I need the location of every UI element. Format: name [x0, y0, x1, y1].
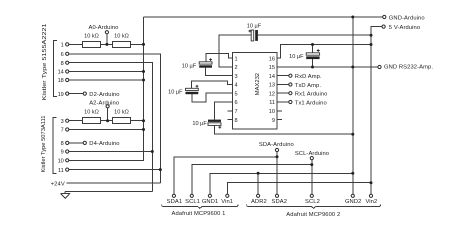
terminal A0-Arduino	[105, 31, 108, 34]
wire C2 bottom to pin5	[192, 93, 233, 102]
resistor R4 10 kOhm	[112, 118, 130, 124]
svg-text:SCL2: SCL2	[305, 199, 320, 205]
svg-text:SCL-Arduino: SCL-Arduino	[295, 151, 329, 157]
wire C3 leads	[312, 45, 314, 68]
terminal K1 pin18	[66, 78, 69, 81]
terminal SCL2	[310, 194, 313, 197]
svg-text:+24V: +24V	[51, 181, 65, 187]
wire pin14 to RxD	[277, 75, 289, 77]
terminal K1 pin14	[66, 70, 69, 73]
svg-text:15: 15	[269, 65, 275, 71]
wire Vin1 up and right	[227, 183, 371, 195]
wire pin7 stub	[227, 110, 232, 112]
node junction SCL	[310, 163, 313, 166]
terminal GND1	[208, 194, 211, 197]
terminal D2-Arduino	[83, 92, 86, 95]
svg-text:Adafruit MCP9600 1: Adafruit MCP9600 1	[171, 211, 225, 217]
svg-text:Kistler Type 5155A2221: Kistler Type 5155A2221	[42, 24, 48, 101]
terminal K1 pin8	[66, 61, 69, 64]
svg-text:11: 11	[58, 168, 64, 174]
node junction pin7 GND	[142, 128, 145, 131]
svg-text:4: 4	[235, 83, 238, 89]
node junction ADR2	[257, 172, 260, 175]
svg-text:Vin1: Vin1	[221, 199, 233, 205]
wire pin9 stub	[277, 119, 282, 121]
terminal Rx1 Arduino	[289, 92, 292, 95]
node junction pin18 GND	[142, 79, 145, 82]
terminal SDA1	[172, 194, 175, 197]
wire VCC line pin16 to 5V	[277, 45, 371, 59]
wire GND1 up and right	[210, 173, 353, 194]
wire pin15 GND RS232 line	[277, 66, 378, 68]
node junction pin14 GND	[142, 70, 145, 73]
wire K1 pin19 to D2	[69, 93, 83, 95]
terminal K2 pin8	[66, 141, 69, 144]
svg-text:A0-Arduino: A0-Arduino	[88, 25, 118, 31]
svg-text:D2-Arduino: D2-Arduino	[89, 92, 119, 98]
wire C4 bottom to GND bus	[215, 125, 353, 134]
wire ground line	[65, 190, 152, 192]
node junction Vin1 bus	[370, 181, 373, 184]
capacitor C4 10uF (pin6-GND)	[208, 120, 221, 129]
svg-text:10 µF: 10 µF	[182, 63, 197, 69]
ground symbol	[61, 191, 70, 198]
svg-text:8: 8	[61, 141, 64, 147]
svg-text:SDA-Arduino: SDA-Arduino	[259, 142, 294, 148]
capacitor C2 10uF (pin4-pin5)	[186, 85, 199, 94]
svg-text:16: 16	[269, 56, 275, 62]
node junction SDA	[276, 155, 279, 158]
node junction A0 divider	[105, 43, 108, 46]
op-amp box MAX232 U1	[233, 53, 277, 129]
svg-text:D4-Arduino: D4-Arduino	[89, 141, 119, 147]
svg-text:SDA2: SDA2	[272, 199, 288, 205]
wire A2 stem	[107, 108, 109, 121]
terminal ADR2	[257, 194, 260, 197]
node junction pin11 24V	[159, 168, 162, 171]
terminal Tx1 Arduino	[289, 100, 292, 103]
node junction A2 divider	[106, 119, 109, 122]
svg-text:10 kΩ: 10 kΩ	[84, 34, 99, 40]
svg-text:GND RS232-Amp.: GND RS232-Amp.	[384, 65, 433, 71]
wire K2 pin8 to D4	[69, 142, 83, 144]
node junction divider2 to GND	[142, 119, 145, 122]
terminal K2 pin7	[66, 128, 69, 131]
svg-text:19: 19	[58, 92, 64, 98]
svg-text:Vin2: Vin2	[365, 199, 377, 205]
node junction pin9 ground	[151, 150, 154, 153]
wire K1 pin1 to divider	[69, 43, 144, 45]
wire V+ line pin2 to 5V	[219, 35, 371, 67]
terminal GND-Arduino	[383, 15, 386, 18]
svg-text:GND2: GND2	[345, 199, 362, 205]
svg-text:10 kΩ: 10 kΩ	[114, 110, 129, 116]
svg-text:7: 7	[235, 109, 238, 115]
svg-text:8: 8	[235, 118, 238, 124]
capacitor C3 10uF (VCC-GND)	[306, 49, 319, 59]
svg-text:12: 12	[269, 91, 275, 97]
svg-text:2: 2	[235, 65, 238, 71]
svg-text:6: 6	[235, 100, 238, 106]
svg-text:TxD Amp.: TxD Amp.	[295, 83, 322, 89]
wire +24V line	[67, 182, 161, 184]
terminal K2 pin10	[66, 159, 69, 162]
svg-text:Adafruit MCP9600 2: Adafruit MCP9600 2	[286, 212, 340, 218]
resistor R2 10 kOhm	[112, 42, 130, 48]
wire SCL1 up and right	[192, 165, 312, 195]
svg-text:10 kΩ: 10 kΩ	[84, 110, 99, 116]
svg-text:10 kΩ: 10 kΩ	[114, 34, 129, 40]
terminal SDA-Arduino	[275, 148, 278, 151]
node junction divider to GND	[142, 43, 145, 46]
brace Adafruit MCP9600 1	[162, 204, 239, 208]
terminal A2-Arduino	[106, 105, 109, 108]
capacitor C1 10uF (pin1-pin3)	[199, 58, 212, 67]
svg-text:1: 1	[61, 43, 64, 49]
wire SDA1 up and right	[174, 157, 277, 194]
wire K1 pin8 to ground symbol	[69, 63, 153, 192]
wire MAX232 pin6 to C4	[215, 102, 233, 120]
svg-text:10: 10	[58, 159, 64, 165]
wire C1 bottom to pin3	[206, 68, 233, 76]
svg-text:RxD Amp.: RxD Amp.	[295, 74, 322, 80]
terminal K1 pin19	[66, 92, 69, 95]
svg-text:10 µF: 10 µF	[247, 23, 262, 29]
terminal TxD Amp	[289, 83, 292, 86]
svg-text:13: 13	[269, 83, 275, 89]
wire pin8 stub	[227, 119, 232, 121]
node junction C3 bottom	[311, 66, 314, 69]
svg-text:SCL1: SCL1	[185, 199, 200, 205]
capacitor C5 10uF (V+ series)	[249, 30, 258, 41]
terminal SCL-Arduino	[310, 157, 313, 160]
terminal K2 pin9	[66, 150, 69, 153]
svg-text:Rx1 Arduino: Rx1 Arduino	[295, 92, 328, 98]
svg-text:1: 1	[235, 56, 238, 62]
svg-text:SDA1: SDA1	[167, 199, 183, 205]
terminal K2 pin3	[66, 119, 69, 122]
wire K2 pin10	[69, 159, 144, 161]
svg-text:ADR2: ADR2	[251, 199, 267, 205]
svg-text:A2-Arduino: A2-Arduino	[89, 101, 119, 107]
svg-text:9: 9	[61, 150, 64, 156]
svg-text:Kistler Type 5073A111: Kistler Type 5073A111	[41, 116, 47, 173]
svg-text:14: 14	[58, 70, 64, 76]
svg-text:5: 5	[235, 91, 238, 97]
terminal 5V-Arduino	[382, 25, 385, 28]
node junction C3 top	[311, 43, 314, 46]
svg-text:9: 9	[272, 118, 275, 124]
node junction V+ 5V	[370, 34, 373, 37]
terminal GND2	[351, 194, 354, 197]
wire ADR2 up	[257, 173, 259, 194]
svg-text:18: 18	[58, 78, 64, 84]
wire MAX232 pin1 jog to C1	[206, 54, 233, 62]
svg-text:3: 3	[61, 119, 64, 125]
node junction GND1 bus	[351, 172, 354, 175]
svg-text:10: 10	[269, 109, 275, 115]
wire GND left vertical bus	[69, 17, 144, 160]
svg-text:14: 14	[269, 74, 275, 80]
svg-text:3: 3	[235, 74, 238, 80]
svg-text:6: 6	[61, 52, 64, 58]
terminal Vin1	[226, 194, 229, 197]
wire pin12 to Rx1	[277, 92, 289, 94]
resistor R1 10 kOhm	[82, 42, 100, 48]
brace Adafruit MCP9600 2	[247, 204, 381, 208]
svg-text:10 µF: 10 µF	[289, 54, 304, 60]
terminal K1 pin1	[66, 43, 69, 46]
wire K2 pin11	[69, 169, 161, 171]
wire K2 pin3 to divider	[69, 120, 144, 122]
wire top GND-Arduino line	[144, 16, 383, 18]
svg-text:7: 7	[61, 128, 64, 134]
wire K2 pin9	[69, 151, 153, 153]
svg-text:10 µF: 10 µF	[192, 121, 207, 127]
terminal D4-Arduino	[83, 141, 86, 144]
svg-text:GND-Arduino: GND-Arduino	[389, 15, 425, 21]
wire K1 pin18	[69, 79, 144, 81]
svg-text:GND1: GND1	[202, 199, 219, 205]
svg-text:11: 11	[269, 100, 275, 106]
node junction GND RS232	[351, 66, 354, 69]
wire K1 pin14	[69, 71, 144, 73]
terminal SDA2	[275, 194, 278, 197]
node junction VCC 5V	[370, 43, 373, 46]
terminal SCL1	[190, 194, 193, 197]
wire 5V vertical bus	[371, 27, 382, 195]
svg-text:MAX232: MAX232	[255, 73, 261, 95]
terminal K1 pin6	[66, 52, 69, 55]
bracket Kistler 1	[53, 41, 57, 97]
node junction C4 GND bus	[351, 133, 354, 136]
node junction top GND	[351, 16, 354, 19]
wire pin13 to TxD	[277, 84, 289, 86]
wire SDA-Arduino stem down	[276, 152, 278, 195]
wire pin10 stub	[277, 110, 282, 112]
wire K2 pin7	[69, 129, 144, 131]
resistor R3 10 kOhm	[82, 118, 100, 124]
wire A0 stem	[106, 34, 108, 45]
wire pin11 to Tx1	[277, 101, 289, 103]
terminal GND RS232-Amp	[378, 65, 381, 68]
wire MAX232 pin4 jog to C2	[192, 81, 233, 88]
wire K1 pin6 to +24V	[69, 54, 161, 183]
svg-text:10 µF: 10 µF	[168, 89, 183, 95]
bracket Kistler 2	[53, 118, 57, 174]
svg-text:8: 8	[61, 61, 64, 67]
terminal Vin2	[369, 194, 372, 197]
wire SCL-Arduino stem down	[311, 160, 313, 195]
wire GND right vertical bus	[352, 17, 354, 194]
terminal RxD Amp	[289, 74, 292, 77]
svg-text:Tx1 Arduino: Tx1 Arduino	[295, 100, 327, 106]
terminal K2 pin11	[66, 168, 69, 171]
svg-text:5 V-Arduino: 5 V-Arduino	[389, 25, 420, 31]
